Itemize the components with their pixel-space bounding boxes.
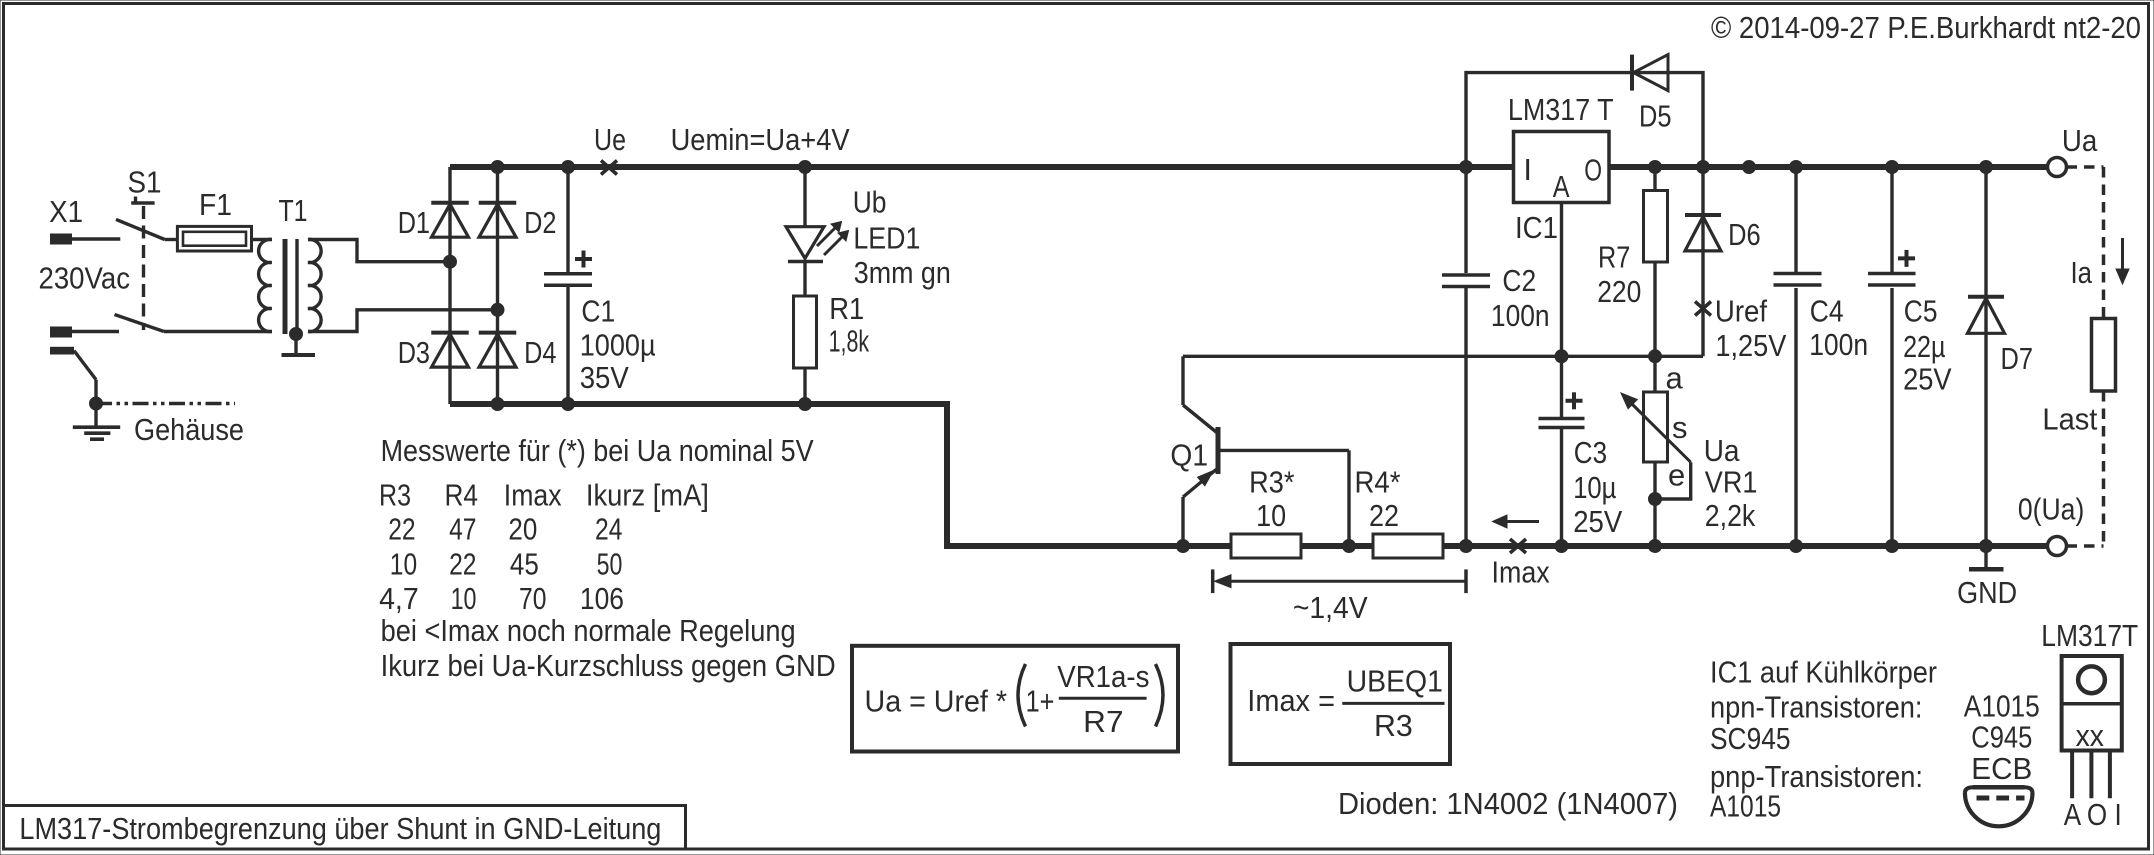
svg-text:106: 106 — [580, 581, 624, 616]
svg-text:C3: C3 — [1574, 435, 1607, 470]
svg-text:A1015: A1015 — [1710, 789, 1781, 824]
svg-text:SC945: SC945 — [1710, 721, 1791, 756]
svg-text:R3: R3 — [1374, 708, 1413, 743]
svg-text:R7: R7 — [1598, 240, 1630, 275]
svg-text:Ikurz [mA]: Ikurz [mA] — [586, 478, 709, 513]
svg-text:Uref: Uref — [1715, 294, 1768, 329]
svg-text:35V: 35V — [580, 360, 629, 395]
svg-text:Uemin=Ua+4V: Uemin=Ua+4V — [671, 122, 850, 157]
svg-text:Imax: Imax — [1492, 554, 1551, 589]
svg-text:ECB: ECB — [1971, 751, 2032, 786]
svg-text:GND: GND — [1957, 575, 2017, 610]
svg-text:Ia: Ia — [2071, 255, 2093, 290]
svg-text:2,2k: 2,2k — [1705, 498, 1756, 533]
svg-text:R3*: R3* — [1249, 465, 1294, 500]
svg-text:3mm gn: 3mm gn — [854, 255, 951, 290]
svg-text:npn-Transistoren:: npn-Transistoren: — [1710, 690, 1923, 725]
svg-text:10: 10 — [451, 581, 477, 616]
svg-text:1+: 1+ — [1026, 684, 1055, 719]
svg-text:Q1: Q1 — [1170, 438, 1208, 473]
svg-text:X1: X1 — [49, 194, 83, 229]
svg-text:0(Ua): 0(Ua) — [2018, 492, 2084, 527]
svg-text:20: 20 — [508, 512, 537, 547]
svg-text:R7: R7 — [1083, 704, 1123, 739]
svg-text:Ue: Ue — [594, 122, 626, 157]
svg-text:10: 10 — [1256, 498, 1286, 533]
svg-text:LM317 T: LM317 T — [1508, 92, 1614, 127]
svg-text:R3: R3 — [379, 478, 411, 513]
svg-text:~1,4V: ~1,4V — [1293, 590, 1368, 625]
svg-text:C4: C4 — [1810, 293, 1844, 328]
svg-text:s: s — [1672, 410, 1688, 445]
svg-text:Last: Last — [2042, 402, 2097, 437]
svg-text:LED1: LED1 — [853, 220, 920, 255]
svg-text:R1: R1 — [829, 291, 864, 326]
svg-text:S1: S1 — [128, 165, 162, 200]
svg-text:100n: 100n — [1491, 298, 1550, 333]
svg-text:Imax =: Imax = — [1247, 683, 1335, 718]
svg-text:A: A — [1553, 169, 1570, 204]
svg-text:230Vac: 230Vac — [39, 261, 131, 296]
svg-text:22: 22 — [1369, 498, 1399, 533]
svg-text:D5: D5 — [1639, 99, 1672, 134]
svg-text:Ikurz bei Ua-Kurzschluss gegen: Ikurz bei Ua-Kurzschluss gegen GND — [381, 648, 836, 683]
svg-text:25V: 25V — [1903, 362, 1952, 397]
svg-text:1,8k: 1,8k — [829, 323, 870, 358]
svg-text:25V: 25V — [1573, 504, 1622, 539]
svg-text:4,7: 4,7 — [379, 581, 419, 616]
svg-text:22µ: 22µ — [1903, 329, 1946, 364]
svg-text:VR1a-s: VR1a-s — [1057, 659, 1149, 694]
svg-text:Ub: Ub — [853, 185, 887, 220]
svg-text:LM317T: LM317T — [2041, 618, 2138, 653]
svg-text:IC1 auf Kühlkörper: IC1 auf Kühlkörper — [1710, 655, 1937, 690]
svg-text:e: e — [1668, 457, 1685, 492]
svg-text:Ua: Ua — [1704, 433, 1740, 468]
svg-text:D2: D2 — [524, 205, 556, 240]
svg-text:Messwerte für (*) bei Ua nomin: Messwerte für (*) bei Ua nominal 5V — [381, 433, 814, 468]
svg-text:D3: D3 — [398, 335, 430, 370]
svg-text:100n: 100n — [1809, 327, 1868, 362]
svg-text:24: 24 — [595, 512, 622, 547]
svg-text:C2: C2 — [1502, 263, 1536, 298]
svg-text:10: 10 — [390, 547, 417, 582]
svg-text:45: 45 — [510, 547, 539, 582]
svg-text:10µ: 10µ — [1573, 470, 1616, 505]
svg-text:22: 22 — [388, 512, 415, 547]
svg-text:I: I — [1523, 152, 1532, 187]
svg-text:LM317-Strombegrenzung über Shu: LM317-Strombegrenzung über Shunt in GND-… — [19, 811, 661, 846]
svg-text:50: 50 — [597, 547, 623, 582]
svg-text:47: 47 — [449, 512, 476, 547]
svg-text:D7: D7 — [2001, 341, 2034, 376]
svg-text:VR1: VR1 — [1705, 465, 1758, 500]
svg-text:D6: D6 — [1728, 217, 1761, 252]
svg-text:Ua = Uref *: Ua = Uref * — [865, 684, 1008, 719]
svg-text:A1015: A1015 — [1964, 689, 2040, 724]
svg-text:Gehäuse: Gehäuse — [134, 412, 244, 447]
svg-text:A O I: A O I — [2064, 797, 2122, 832]
svg-text:UBEQ1: UBEQ1 — [1347, 664, 1443, 699]
svg-text:T1: T1 — [279, 193, 308, 228]
svg-text:Ua: Ua — [2062, 123, 2098, 158]
svg-text:© 2014-09-27 P.E.Burkhardt nt2: © 2014-09-27 P.E.Burkhardt nt2-20 — [1711, 10, 2141, 45]
svg-text:R4*: R4* — [1355, 465, 1401, 500]
svg-text:Imax: Imax — [504, 478, 562, 513]
svg-text:22: 22 — [449, 547, 476, 582]
svg-text:C945: C945 — [1971, 720, 2032, 755]
svg-text:C1: C1 — [581, 294, 615, 329]
svg-text:IC1: IC1 — [1515, 210, 1558, 245]
svg-text:1,25V: 1,25V — [1715, 328, 1786, 363]
svg-text:1000µ: 1000µ — [580, 328, 656, 363]
svg-text:O: O — [1584, 153, 1602, 188]
svg-text:R4: R4 — [445, 478, 479, 513]
svg-text:D4: D4 — [524, 335, 556, 370]
svg-text:bei <Imax noch normale Regelun: bei <Imax noch normale Regelung — [381, 613, 796, 648]
svg-text:a: a — [1666, 360, 1684, 395]
svg-text:xx: xx — [2076, 718, 2105, 753]
svg-text:Dioden: 1N4002 (1N4007): Dioden: 1N4002 (1N4007) — [1338, 786, 1678, 821]
svg-text:F1: F1 — [199, 187, 232, 222]
svg-text:C5: C5 — [1904, 293, 1938, 328]
svg-text:D1: D1 — [398, 205, 430, 240]
svg-text:220: 220 — [1597, 274, 1641, 309]
svg-text:70: 70 — [519, 581, 546, 616]
